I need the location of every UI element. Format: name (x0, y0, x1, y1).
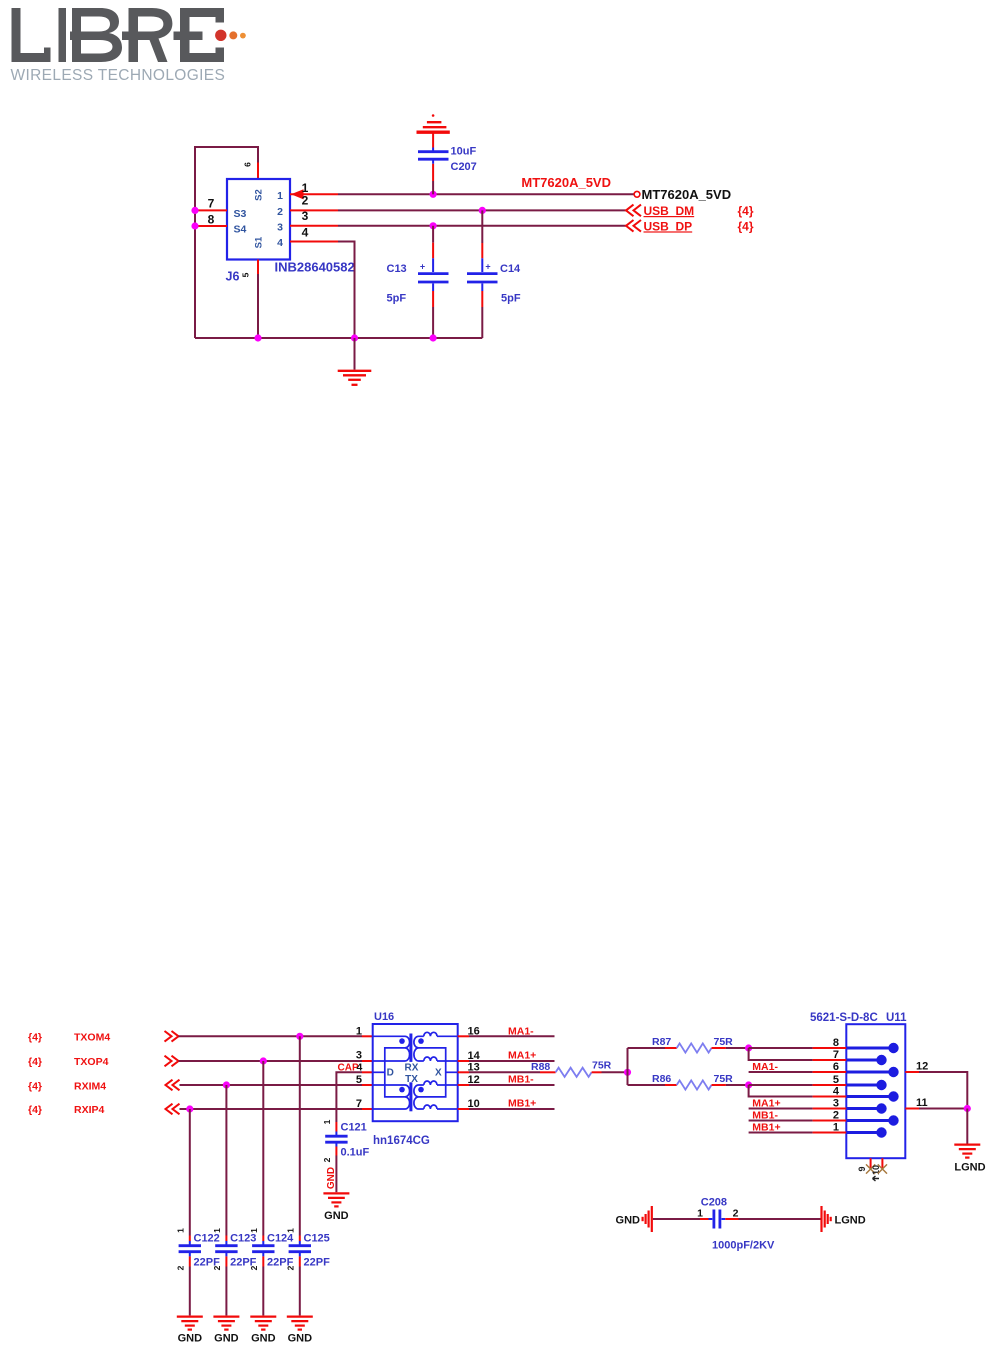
wire USB_DM (338, 209, 626, 211)
ground symbol LGND (954, 1145, 980, 1158)
svg-text:C208: C208 (701, 1197, 727, 1209)
wire junction to R86 (628, 1084, 666, 1086)
svg-text:S3: S3 (234, 208, 247, 220)
svg-text:2: 2 (212, 1265, 222, 1270)
svg-text:MA1-: MA1- (508, 1026, 534, 1038)
svg-text:C125: C125 (304, 1233, 330, 1245)
svg-text:MB1+: MB1+ (508, 1098, 536, 1110)
svg-text:2: 2 (833, 1110, 839, 1122)
svg-text:{4}: {4} (28, 1056, 42, 1068)
wire to pin5 (749, 1084, 813, 1086)
svg-text:J6: J6 (226, 270, 240, 284)
U11 pin 3 (813, 1108, 847, 1110)
svg-text:LGND: LGND (835, 1214, 866, 1226)
junction pin5 pin4 (745, 1081, 752, 1088)
wire TXOM4 drop (299, 1036, 301, 1235)
junction pin7 (191, 207, 198, 214)
connector U11 (810, 1012, 907, 1158)
inner box (385, 1048, 446, 1097)
svg-text:MB1-: MB1- (752, 1110, 778, 1122)
svg-text:1: 1 (249, 1228, 259, 1233)
junction RXIM4 (223, 1081, 230, 1088)
svg-text:8: 8 (833, 1037, 839, 1049)
wire bottom ground bus (195, 337, 482, 339)
pin 1 stub red (290, 193, 338, 195)
wire pin11 to LGND (919, 1108, 967, 1110)
svg-text:0.1uF: 0.1uF (341, 1147, 370, 1159)
junction C13 on USB_DP (430, 222, 437, 229)
wire RXIP4 drop (189, 1109, 191, 1236)
RX secondary dot (418, 1038, 424, 1044)
wire CAP4 to C121 (336, 1072, 362, 1122)
svg-text:RXIM4: RXIM4 (74, 1080, 106, 1092)
svg-text:5621-S-D-8C: 5621-S-D-8C (810, 1012, 878, 1024)
svg-text:C207: C207 (451, 161, 477, 173)
port chevron TXOM4 (165, 1031, 179, 1042)
svg-text:RXIP4: RXIP4 (74, 1104, 105, 1116)
svg-text:USB_DP: USB_DP (644, 219, 693, 233)
svg-text:U16: U16 (374, 1011, 394, 1023)
pin 7 stub (196, 209, 227, 211)
TX primary winding (373, 1085, 410, 1109)
logo letter L (12, 8, 51, 62)
BOTTOM-CIRCUIT (28, 1011, 986, 1345)
svg-text:+: + (485, 262, 490, 272)
svg-text:5pF: 5pF (387, 293, 407, 305)
svg-text:MA1+: MA1+ (508, 1049, 536, 1061)
pin 6 stub J6 top (257, 163, 259, 180)
svg-text:C122: C122 (194, 1233, 220, 1245)
svg-text:MB1-: MB1- (508, 1073, 534, 1085)
U11 pin 8 (813, 1047, 847, 1049)
wire pin5 to ground bus (257, 274, 259, 338)
svg-text:LGND: LGND (954, 1162, 985, 1174)
svg-text:hn1674CG: hn1674CG (373, 1135, 430, 1147)
svg-text:GND: GND (326, 1167, 337, 1189)
svg-text:75R: 75R (714, 1036, 734, 1048)
svg-text:5pF: 5pF (501, 293, 521, 305)
svg-text:GND: GND (214, 1333, 239, 1345)
junction pin4 ground (351, 334, 358, 341)
wire MA1- U16 (469, 1035, 555, 1037)
wire RXIM4 drop (225, 1085, 227, 1236)
svg-text:22PF: 22PF (304, 1257, 331, 1269)
svg-text:INB28640582: INB28640582 (275, 260, 355, 275)
svg-text:1: 1 (175, 1228, 185, 1233)
svg-text:{4}: {4} (738, 219, 754, 233)
junction C207 on 5VD (430, 191, 437, 198)
ground symbol top circuit (338, 338, 372, 385)
svg-text:{4}: {4} (28, 1080, 42, 1092)
wire pin13 to R88 (469, 1071, 540, 1073)
svg-text:4: 4 (277, 237, 283, 249)
svg-text:R87: R87 (652, 1036, 671, 1048)
svg-text:2: 2 (302, 194, 309, 208)
svg-text:MA1-: MA1- (752, 1061, 778, 1073)
svg-text:WIRELESS TECHNOLOGIES: WIRELESS TECHNOLOGIES (11, 67, 226, 84)
wire TXOM4 (179, 1035, 363, 1037)
U11 pin 12 (905, 1071, 919, 1073)
pin 3 stub red (290, 225, 338, 227)
wire pin12 to LGND (919, 1072, 967, 1109)
wire MA1- U11 (749, 1071, 813, 1073)
capacitor C14 (467, 210, 521, 338)
wire MB1+ U11 (749, 1132, 813, 1134)
junction TXOP4 (260, 1057, 267, 1064)
svg-text:TXOM4: TXOM4 (74, 1031, 110, 1043)
svg-text:4: 4 (833, 1086, 840, 1098)
wire GND to C208 (653, 1218, 700, 1220)
svg-text:MT7620A_5VD: MT7620A_5VD (642, 187, 732, 202)
junction pin5 ground (254, 334, 261, 341)
U11 pin 6 (813, 1071, 847, 1073)
RX secondary winding (414, 1036, 424, 1061)
svg-text:3: 3 (277, 221, 283, 233)
pin13 inner lead (446, 1071, 458, 1073)
svg-text:75R: 75R (714, 1073, 734, 1085)
wire LGND drop (966, 1109, 968, 1144)
svg-text:MA1+: MA1+ (752, 1098, 780, 1110)
U16 pin 10 stub (458, 1108, 469, 1110)
U16 pin 1 stub (362, 1035, 373, 1037)
svg-text:5: 5 (833, 1074, 839, 1086)
U11 pin 2 (813, 1120, 847, 1122)
logo letter I (59, 8, 67, 62)
svg-text:{4}: {4} (28, 1031, 42, 1043)
wire MT7620A_5VD (338, 193, 634, 195)
ground symbol C121 (323, 1193, 349, 1206)
U11 pin 9 no-connect (870, 1158, 872, 1169)
wire to pin8 (749, 1047, 813, 1049)
wire TXOP4 drop (262, 1061, 264, 1236)
svg-text:S1: S1 (254, 236, 265, 248)
svg-text:1: 1 (285, 1228, 295, 1233)
wire MB1+ U16 (469, 1108, 555, 1110)
RX squiggle top (424, 1032, 458, 1036)
svg-text:10uF: 10uF (451, 146, 477, 158)
svg-text:C14: C14 (500, 263, 521, 275)
transformer U16 (373, 1011, 458, 1147)
wire RXIM4 (180, 1084, 363, 1086)
pin 2 stub red (290, 209, 338, 211)
svg-text:9: 9 (857, 1166, 867, 1171)
ground symbol C123 (213, 1317, 239, 1330)
svg-text:2: 2 (277, 206, 283, 218)
junction LGND (964, 1105, 971, 1112)
TX squiggle pin10 (424, 1105, 458, 1109)
svg-text:{4}: {4} (28, 1104, 42, 1116)
svg-text:5: 5 (356, 1074, 362, 1086)
junction R87 R86 split (624, 1069, 631, 1076)
ground symbol C122 (177, 1317, 203, 1330)
LOGO-GROUP (11, 8, 246, 84)
wire pin4 to ground bus (338, 242, 355, 339)
RX primary winding (373, 1036, 410, 1061)
svg-text:7: 7 (208, 197, 215, 211)
svg-text:X: X (435, 1067, 442, 1078)
capacitor C13 (387, 226, 449, 338)
junction pin8 (191, 222, 198, 229)
TX squiggle pin12 (424, 1081, 458, 1085)
wire drop to pin4 (749, 1085, 813, 1097)
svg-text:5: 5 (241, 272, 251, 277)
U16 pin 3 stub (362, 1060, 373, 1062)
logo letter E (174, 8, 225, 62)
wire junction to R87 (628, 1047, 666, 1049)
pin 4 stub red (290, 241, 338, 243)
svg-text:R88: R88 (531, 1061, 550, 1073)
U11 pin 5 (813, 1084, 847, 1086)
capacitor C124 (249, 1228, 294, 1316)
svg-text:USB_DM: USB_DM (644, 204, 695, 218)
ground symbol sideways GND (643, 1206, 652, 1232)
logo dot orange1 (229, 31, 237, 39)
wire MA1+ U16 (469, 1060, 555, 1062)
svg-text:6: 6 (833, 1061, 839, 1073)
wire C208 to LGND (739, 1218, 821, 1220)
svg-text:GND: GND (288, 1333, 313, 1345)
svg-text:GND: GND (324, 1210, 349, 1222)
TX secondary dot (418, 1087, 424, 1093)
off-page circle MT7620A_5VD (634, 191, 640, 197)
resistor R87 (652, 1036, 733, 1053)
svg-text:2: 2 (322, 1157, 332, 1162)
svg-text:1: 1 (356, 1025, 362, 1037)
svg-text:4: 4 (302, 226, 309, 240)
logo dot red (215, 30, 226, 41)
svg-text:S2: S2 (254, 189, 265, 201)
wire R87 to U11 junction (726, 1047, 749, 1049)
svg-text:C123: C123 (230, 1233, 256, 1245)
U16 pin 12 stub (458, 1084, 469, 1086)
svg-text:S4: S4 (234, 224, 247, 236)
U16 pin 14 stub (458, 1060, 469, 1062)
svg-text:C13: C13 (387, 263, 407, 275)
capacitor C123 (212, 1228, 257, 1316)
capacitor C208 (697, 1197, 775, 1252)
svg-text:R86: R86 (652, 1073, 671, 1085)
port chevron RXIP4 (166, 1104, 180, 1115)
svg-text:3: 3 (302, 209, 309, 223)
svg-text:2: 2 (733, 1208, 739, 1220)
TOP-CIRCUIT (191, 114, 753, 385)
U11 pin 11 (905, 1108, 919, 1110)
port chevron TXOP4 (165, 1056, 179, 1067)
svg-text:RX: RX (405, 1062, 419, 1073)
TX secondary winding (414, 1085, 424, 1109)
resistor R88 (531, 1060, 612, 1077)
junction RXIP4 (186, 1105, 193, 1112)
svg-text:1: 1 (697, 1208, 703, 1220)
svg-text:MB1+: MB1+ (752, 1122, 780, 1134)
U16 pin 4 stub (362, 1071, 373, 1073)
core bar TX (409, 1082, 412, 1111)
wire USB_DP (338, 225, 626, 227)
svg-text:{4}: {4} (738, 204, 754, 218)
wire R86 to U11 junction (726, 1084, 749, 1086)
svg-text:3: 3 (356, 1050, 362, 1062)
svg-text:GND: GND (178, 1333, 203, 1345)
svg-text:MT7620A_5VD: MT7620A_5VD (521, 175, 611, 190)
svg-text:C124: C124 (267, 1233, 294, 1245)
svg-text:1: 1 (277, 190, 283, 202)
svg-text:GND: GND (616, 1214, 641, 1226)
junction C13 ground (430, 334, 437, 341)
capacitor C121 (322, 1119, 370, 1192)
port chevron USB_DM (626, 205, 641, 217)
junction pin8 pin7 (745, 1044, 752, 1051)
svg-text:1: 1 (833, 1122, 839, 1134)
ground symbol C125 (287, 1317, 313, 1330)
svg-text:7: 7 (833, 1049, 839, 1061)
U11 pin 4 (813, 1096, 847, 1098)
port chevron RXIM4 (166, 1080, 180, 1091)
wire MA1+ U11 (749, 1108, 813, 1110)
pin4 inner lead (373, 1071, 385, 1073)
wire split vertical (627, 1048, 629, 1085)
svg-text:C121: C121 (341, 1122, 367, 1134)
RX squiggle bottom (424, 1057, 458, 1061)
svg-text:8: 8 (208, 213, 215, 227)
wire MB1- U11 (749, 1120, 813, 1122)
svg-text:1000pF/2KV: 1000pF/2KV (712, 1240, 775, 1252)
U11 pin 7 (813, 1059, 847, 1061)
pin 8 stub (196, 225, 227, 227)
svg-text:+: + (420, 262, 425, 272)
TX primary dot (399, 1087, 405, 1093)
capacitor C122 (175, 1228, 220, 1316)
RX primary dot (399, 1038, 405, 1044)
svg-text:U11: U11 (886, 1012, 907, 1024)
U16 pin 7 stub (362, 1108, 373, 1110)
U16 pin 13 stub (458, 1071, 469, 1073)
svg-text:GND: GND (251, 1333, 276, 1345)
U16 pin 16 stub (458, 1035, 469, 1037)
port chevron USB_DP (626, 220, 641, 232)
wire TXOP4 (179, 1060, 363, 1062)
core bar RX (409, 1034, 412, 1062)
svg-text:TX: TX (405, 1074, 418, 1085)
svg-text:7: 7 (356, 1098, 362, 1110)
U11 pin 10 no-connect (881, 1158, 883, 1169)
svg-text:1: 1 (212, 1228, 222, 1233)
wire left shield loop (195, 147, 258, 338)
junction TXOM4 (296, 1033, 303, 1040)
ground symbol sideways LGND (822, 1206, 831, 1232)
logo letter R (122, 8, 172, 62)
svg-text:3: 3 (833, 1098, 839, 1110)
wire drop to pin7 (749, 1048, 813, 1060)
capacitor C125 (285, 1228, 330, 1316)
svg-text:75R: 75R (592, 1060, 612, 1072)
logo dot orange2 (240, 33, 246, 39)
svg-text:2: 2 (249, 1265, 259, 1270)
svg-text:2: 2 (285, 1265, 295, 1270)
ground symbol C124 (250, 1317, 276, 1330)
wire MB1- U16 (469, 1084, 555, 1086)
svg-text:6: 6 (243, 162, 253, 167)
junction C14 on USB_DM (479, 207, 486, 214)
wire RXIP4 (180, 1108, 363, 1110)
svg-text:11: 11 (916, 1097, 928, 1109)
svg-text:D: D (387, 1067, 394, 1078)
pin 1 input arrow (291, 189, 304, 199)
svg-text:1: 1 (322, 1119, 332, 1124)
logo letter B (70, 8, 122, 62)
svg-text:TXOP4: TXOP4 (74, 1056, 109, 1068)
resistor R86 (652, 1073, 733, 1090)
wire R88 to junction (602, 1071, 628, 1073)
pin 5 stub red (257, 260, 259, 275)
svg-text:12: 12 (916, 1061, 928, 1073)
svg-text:2: 2 (175, 1265, 185, 1270)
connector J6 (227, 179, 290, 260)
capacitor C207 (418, 146, 477, 195)
U16 pin 5 stub (362, 1084, 373, 1086)
power symbol MT7620A_5VD (417, 114, 450, 147)
U11 pin 1 (813, 1132, 847, 1134)
